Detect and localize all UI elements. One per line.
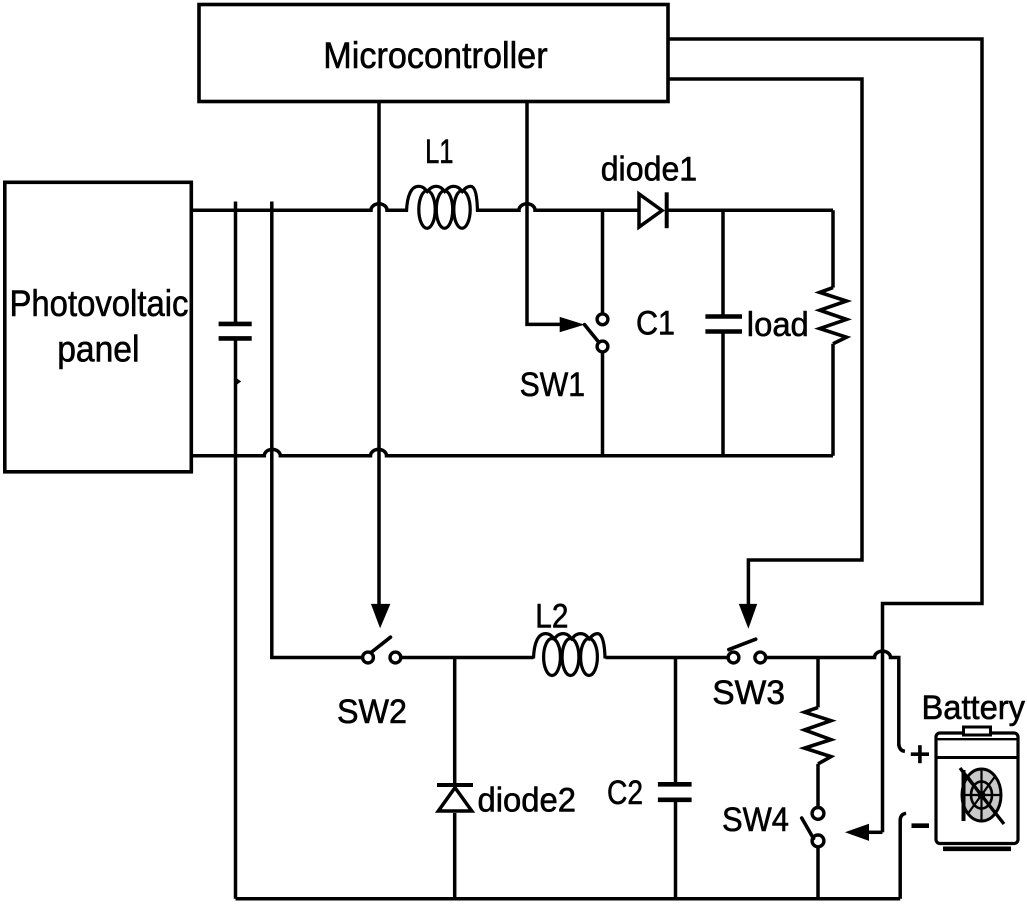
svg-text:C2: C2 [607, 774, 643, 812]
svg-text:Microcontroller: Microcontroller [323, 35, 547, 76]
svg-text:Battery: Battery [922, 689, 1026, 727]
svg-text:SW4: SW4 [722, 801, 789, 839]
svg-text:SW2: SW2 [337, 693, 407, 731]
svg-text:load: load [747, 306, 809, 344]
svg-text:diode1: diode1 [601, 151, 698, 189]
svg-text:L1: L1 [425, 133, 453, 171]
svg-text:Photovoltaic: Photovoltaic [10, 283, 189, 324]
svg-text:panel: panel [57, 328, 139, 369]
svg-text:diode2: diode2 [478, 781, 577, 819]
svg-text:C1: C1 [636, 304, 675, 342]
svg-text:SW3: SW3 [712, 674, 785, 712]
svg-text:SW1: SW1 [520, 366, 585, 404]
svg-text:L2: L2 [535, 598, 568, 636]
